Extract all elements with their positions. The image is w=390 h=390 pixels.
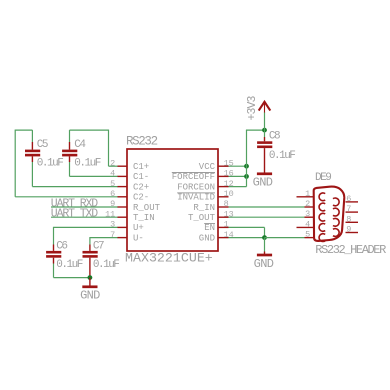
svg-text:C6: C6	[56, 240, 67, 252]
pin 1 (EN) stub	[218, 226, 229, 228]
svg-text:2: 2	[305, 199, 310, 209]
svg-text:0.1uF: 0.1uF	[37, 157, 63, 169]
svg-text:5: 5	[305, 230, 310, 240]
DE9 pin 5 socket arc	[319, 234, 325, 242]
DE9 pin 9 stub	[346, 232, 359, 234]
svg-text:0.1uF: 0.1uF	[93, 259, 119, 271]
wire net C2+ from C5 to pin 5	[32, 186, 118, 188]
svg-text:11: 11	[105, 209, 115, 219]
wire EN pin1 jog	[229, 226, 265, 228]
svg-text:C5: C5	[37, 139, 48, 151]
pin 11 (T_IN) stub	[118, 216, 128, 218]
DE9 pin 3 stub	[305, 216, 314, 218]
IC U1 MAX3221 box	[127, 149, 218, 251]
pin 9 (R_OUT) stub	[118, 206, 128, 208]
svg-text:10: 10	[224, 189, 234, 199]
wire net C1+ loop top (C4 top to pin2 riser)	[70, 129, 109, 131]
pin 4 (C1-) stub	[118, 175, 128, 177]
pin 2 (C1+) stub	[118, 165, 128, 167]
svg-text:6: 6	[346, 194, 351, 204]
DE9 pin 2 socket arc	[319, 203, 325, 211]
pin 3 (U+) stub	[118, 226, 128, 228]
wire FORCEON pin12 to riser	[229, 186, 247, 188]
wire net V- to pin 7	[90, 237, 118, 239]
svg-text:3: 3	[110, 220, 115, 230]
svg-text:MAX3221CUE+: MAX3221CUE+	[125, 251, 213, 266]
wire VCC pin15 to 3V3 riser	[229, 165, 247, 167]
svg-text:1: 1	[305, 189, 310, 199]
supply +3V3 arrow	[259, 102, 271, 113]
svg-text:R_OUT: R_OUT	[133, 203, 161, 213]
DE9 pin 8 stub	[346, 221, 359, 223]
svg-text:5: 5	[110, 179, 115, 189]
wire GND pin14	[229, 237, 265, 239]
svg-text:C2-: C2-	[133, 193, 149, 203]
svg-text:C1-: C1-	[133, 172, 149, 182]
svg-text:GND: GND	[199, 233, 215, 243]
svg-text:C8: C8	[269, 131, 280, 143]
DE9 pin 1 stub	[297, 196, 314, 198]
junction VCC	[244, 164, 249, 169]
svg-text:FORCEOFF: FORCEOFF	[172, 172, 215, 182]
DE9 pin 5 stub	[305, 237, 314, 239]
wire net V+ down to C6	[53, 227, 55, 245]
svg-text:C4: C4	[74, 139, 86, 151]
pin 8 (R_IN) stub	[218, 206, 229, 208]
svg-text:8: 8	[346, 214, 351, 224]
svg-text:VCC: VCC	[199, 162, 216, 172]
DE9 pin 9 socket arc	[333, 229, 339, 237]
DE9 pin 4 socket arc	[319, 224, 325, 232]
svg-text:RS232: RS232	[126, 134, 158, 148]
svg-text:0.1uF: 0.1uF	[56, 259, 82, 271]
svg-text:EN: EN	[204, 223, 215, 233]
capacitor C5	[25, 130, 40, 187]
svg-text:4: 4	[110, 169, 115, 179]
wire EN down to GND net	[264, 227, 266, 237]
wire net C2- to pin 6	[15, 196, 118, 198]
svg-text:GND: GND	[254, 257, 274, 271]
svg-text:+3V3: +3V3	[246, 96, 259, 121]
DE9 pin 7 stub	[346, 211, 359, 213]
DE9 pin 2 stub	[305, 206, 314, 208]
svg-text:GND: GND	[80, 289, 100, 303]
wire 3V3 riser vertical	[246, 130, 248, 187]
svg-text:RS232_HEADER: RS232_HEADER	[315, 243, 386, 257]
wire 3V3 down to C8	[264, 113, 266, 138]
svg-text:15: 15	[224, 158, 234, 168]
svg-text:14: 14	[224, 230, 234, 240]
svg-text:4: 4	[305, 219, 310, 229]
DE9 pin 8 socket arc	[333, 218, 339, 226]
junction C6/C7 ground	[88, 275, 93, 280]
svg-text:T_IN: T_IN	[133, 213, 155, 223]
pin 7 (U-) stub	[118, 237, 128, 239]
wire R_IN pin8 to DE9 pin2	[229, 206, 305, 208]
svg-text:1: 1	[224, 220, 229, 230]
junction 3V3 node	[262, 128, 267, 133]
svg-text:INVALID: INVALID	[177, 193, 215, 203]
ground symbol below C7	[82, 278, 97, 287]
svg-text:7: 7	[346, 204, 351, 214]
svg-text:13: 13	[224, 209, 234, 219]
DE9 pin 6 stub	[346, 201, 359, 203]
overline on INVALID	[177, 192, 215, 194]
svg-text:U+: U+	[133, 223, 144, 233]
DE9 pin 1 socket arc	[319, 193, 325, 201]
overline on FORCEOFF	[172, 172, 215, 174]
wire GND net down to ground	[264, 238, 266, 252]
wire C6 bottom to junction	[54, 277, 90, 279]
pin 6 (C2-) stub	[118, 196, 128, 198]
svg-text:12: 12	[224, 179, 234, 189]
svg-text:16: 16	[224, 169, 234, 179]
svg-text:2: 2	[110, 158, 115, 168]
wire net V- down to C7	[89, 237, 91, 244]
svg-text:C1+: C1+	[133, 162, 149, 172]
DE9 pin 3 socket arc	[319, 213, 325, 221]
DE9 pin 4 stub	[297, 226, 314, 228]
pin 12 (FORCEON) stub	[218, 186, 229, 188]
svg-text:R_IN: R_IN	[193, 203, 215, 213]
capacitor C4	[62, 130, 77, 176]
svg-text:8: 8	[224, 199, 229, 209]
wire FORCEOFF pin16 to riser	[229, 175, 247, 177]
svg-text:GND: GND	[253, 176, 273, 190]
svg-text:T_OUT: T_OUT	[188, 213, 216, 223]
DE9 pin 6 socket arc	[333, 198, 339, 206]
svg-text:0.1uF: 0.1uF	[74, 157, 100, 169]
svg-text:C2+: C2+	[133, 182, 149, 192]
wire net C2- left loop top	[15, 129, 32, 131]
pin 16 (FORCEOFF) stub	[218, 175, 229, 177]
pin 13 (T_OUT) stub	[218, 216, 229, 218]
wire net UART_TXD to pin 11	[51, 216, 118, 218]
wire T_OUT pin13 to DE9 pin3	[229, 216, 305, 218]
pin 5 (C2+) stub	[118, 186, 128, 188]
wire net C2- left vertical	[14, 130, 16, 197]
overline on EN	[204, 223, 215, 225]
svg-text:0.1uF: 0.1uF	[269, 150, 295, 162]
wire net C1- from C4 to pin 4	[70, 175, 119, 177]
wire GND net to DE9 pin5	[265, 237, 305, 239]
svg-text:FORCEON: FORCEON	[177, 182, 215, 192]
wire net UART_RXD to pin 9	[51, 206, 118, 208]
svg-text:U-: U-	[133, 233, 144, 243]
wire net C1+ riser to pin 2	[108, 130, 110, 167]
pin 10 (INVALID) stub	[218, 196, 229, 198]
svg-text:7: 7	[110, 230, 115, 240]
capacitor C7	[83, 245, 98, 278]
capacitor C6	[46, 245, 61, 278]
wire net C1+ into pin 2	[109, 165, 119, 167]
junction GND net	[262, 235, 267, 240]
DE9 pin 7 socket arc	[333, 208, 339, 216]
svg-text:9: 9	[110, 199, 115, 209]
svg-text:DE9: DE9	[315, 172, 331, 184]
pin 15 (VCC) stub	[218, 165, 229, 167]
svg-text:UART_TXD: UART_TXD	[51, 208, 98, 221]
svg-text:9: 9	[346, 225, 351, 235]
ground symbol below C8	[257, 172, 272, 175]
wire 3V3 horizontal branch	[246, 129, 265, 131]
svg-text:C7: C7	[93, 240, 104, 252]
junction FORCEOFF	[244, 174, 249, 179]
ground symbol below GND net	[257, 252, 272, 256]
pin 14 (GND) stub	[218, 237, 229, 239]
capacitor C8	[257, 137, 272, 173]
connector DE9 outline	[314, 187, 345, 241]
wire net V+ to pin 3	[54, 226, 119, 228]
svg-text:3: 3	[305, 209, 310, 219]
svg-text:6: 6	[110, 189, 115, 199]
